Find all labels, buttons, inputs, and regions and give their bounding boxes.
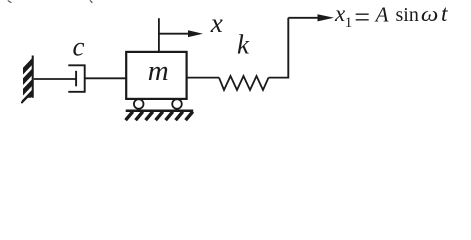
svg-text:A: A [374, 2, 389, 26]
svg-text:k: k [237, 30, 250, 60]
mass block m [126, 52, 186, 99]
svg-text:=: = [354, 2, 370, 33]
svg-text:t: t [441, 1, 448, 27]
roller right [172, 99, 182, 109]
stray cropped mark top-middle [90, 0, 94, 3]
arrow x1 [288, 14, 334, 21]
arrow x [159, 30, 203, 37]
wall (hatched support, left) [21, 55, 35, 109]
svg-text:m: m [148, 55, 169, 87]
ground hatching [126, 112, 193, 121]
displacement reference line on mass top [158, 18, 160, 52]
base excitation riser wire [287, 18, 289, 79]
svg-text:sin: sin [396, 4, 419, 26]
equation x1 = A sin w t [334, 1, 448, 33]
damper piston [75, 71, 77, 87]
ground line [126, 109, 194, 112]
spring k [219, 76, 269, 90]
roller left [134, 99, 144, 109]
svg-text:x: x [210, 8, 223, 38]
damper C cylinder [68, 65, 84, 92]
svg-text:1: 1 [345, 15, 353, 31]
stray cropped mark top-left [8, 0, 13, 3]
svg-text:ω: ω [421, 3, 438, 26]
wire mass to spring [187, 77, 219, 79]
wire damper to mass [85, 77, 127, 79]
wire spring to base [269, 77, 289, 79]
svg-text:c: c [73, 32, 85, 62]
wire wall to damper piston [34, 78, 76, 80]
